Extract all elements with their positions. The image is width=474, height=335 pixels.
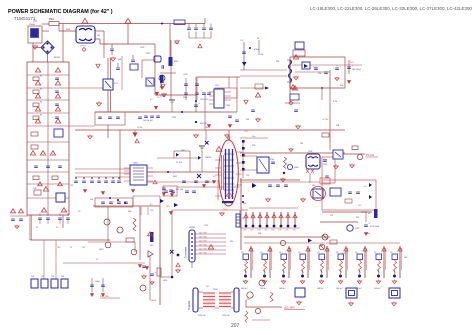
svg-text:POWER SCHEMATIC DIAGRAM (for 4: POWER SCHEMATIC DIAGRAM (for 42" ) xyxy=(8,9,113,15)
capacitor xyxy=(55,103,59,105)
resistor zigzag xyxy=(321,260,324,273)
wire xyxy=(240,69,287,71)
ground xyxy=(301,199,306,202)
ground arrow xyxy=(364,232,368,236)
tick marks above inlet xyxy=(33,20,37,22)
blue dot xyxy=(301,275,304,278)
svg-text:24V_INV: 24V_INV xyxy=(199,244,207,246)
ground xyxy=(15,226,19,229)
wire y65 xyxy=(292,64,362,66)
blue dot xyxy=(358,275,361,278)
wire xyxy=(245,270,247,276)
wire xyxy=(321,270,323,276)
ground xyxy=(110,58,115,61)
wire xyxy=(329,130,331,150)
warning triangle xyxy=(293,55,298,59)
svg-text:D96: D96 xyxy=(293,230,296,232)
diode xyxy=(273,212,275,225)
transistor xyxy=(243,254,249,260)
ground xyxy=(150,282,154,285)
wire xyxy=(264,270,266,276)
capacitor xyxy=(188,24,190,28)
left margin cluster xyxy=(11,209,16,213)
svg-text:D96: D96 xyxy=(272,230,275,232)
capacitor C929 xyxy=(205,180,209,182)
vertical rail 241 xyxy=(240,178,242,250)
resistor R913 bar xyxy=(169,57,173,66)
wire drops xyxy=(140,207,142,215)
wire xyxy=(215,307,219,309)
diode xyxy=(259,212,261,225)
wire xyxy=(142,59,154,61)
filter component FB901 xyxy=(174,20,185,25)
main rail 130 xyxy=(75,129,345,131)
main rail 112 xyxy=(95,111,237,113)
transistor Q962 xyxy=(357,154,362,159)
wire xyxy=(302,270,304,276)
svg-text:Q95: Q95 xyxy=(150,245,153,247)
power arrow xyxy=(382,247,386,251)
warning triangle pair ladder low xyxy=(38,182,43,186)
ground diamond top xyxy=(227,136,231,140)
section box to-inverter xyxy=(172,209,240,211)
ground xyxy=(176,270,181,273)
wire ladder to aux xyxy=(69,87,104,89)
capacitor C927 xyxy=(182,180,186,182)
power arrow big xyxy=(132,132,137,137)
wire xyxy=(285,102,300,104)
main transformer T901 circled xyxy=(219,140,239,206)
opto coupler PC902 xyxy=(333,150,343,159)
power arrow xyxy=(344,247,348,251)
wire vertical 122 xyxy=(121,56,123,90)
transistor Q965 xyxy=(280,240,285,245)
svg-text:R909: R909 xyxy=(66,29,70,31)
ground xyxy=(32,46,37,49)
transistor xyxy=(262,254,268,260)
warning triangle xyxy=(55,119,60,123)
transistor X mark xyxy=(197,174,201,178)
power arrow xyxy=(287,247,291,251)
svg-text:1N4148: 1N4148 xyxy=(150,300,156,302)
transformer T950 left former xyxy=(193,288,198,312)
ground xyxy=(338,281,342,284)
svg-text:D912: D912 xyxy=(181,150,185,152)
driver cell line xyxy=(288,246,290,278)
power arrow xyxy=(160,86,164,90)
svg-text:100K 4u7: 100K 4u7 xyxy=(260,288,267,290)
red box snubber low xyxy=(163,186,177,196)
wire vertical 205 xyxy=(204,95,206,130)
crystal component XT2 xyxy=(389,288,400,298)
svg-text:Q9: Q9 xyxy=(298,252,300,254)
capacitor xyxy=(101,284,105,286)
svg-text:Q96: Q96 xyxy=(246,299,250,301)
svg-text:+12V: +12V xyxy=(183,74,188,76)
svg-text:U904: U904 xyxy=(226,105,230,107)
junction xyxy=(167,171,169,173)
wire harness xyxy=(195,233,226,235)
resistor R903 xyxy=(130,64,138,69)
svg-text:R913: R913 xyxy=(174,61,178,63)
transistor cluster mid xyxy=(105,242,111,248)
capacitor C961 xyxy=(314,67,318,69)
capacitor C932 xyxy=(271,161,275,163)
capacitor xyxy=(90,284,94,286)
wire xyxy=(240,181,320,183)
red highlight box xyxy=(320,178,330,184)
diode D912 xyxy=(176,153,179,157)
diode D951 xyxy=(148,251,153,257)
capacitor row on rail xyxy=(144,115,148,117)
warning triangle row xyxy=(30,151,35,155)
svg-text:24V_INV: 24V_INV xyxy=(199,248,207,250)
ground xyxy=(296,126,301,129)
driver cell line xyxy=(345,246,347,278)
wire xyxy=(58,24,60,32)
wire y72 xyxy=(295,71,330,73)
power arrow xyxy=(249,247,253,251)
wire xyxy=(10,215,28,217)
wire top bus xyxy=(59,23,205,25)
warning triangle xyxy=(43,187,48,191)
wire xyxy=(107,207,109,242)
svg-text:C913: C913 xyxy=(146,53,150,55)
svg-text:0.1: 0.1 xyxy=(150,204,153,206)
wire xyxy=(134,242,136,252)
power node arrow xyxy=(96,64,100,68)
diode D975 xyxy=(369,195,372,199)
wire rung xyxy=(27,141,69,143)
wire xyxy=(128,43,155,45)
resistor xyxy=(33,77,39,81)
blue dot xyxy=(244,275,247,278)
resistor R976 zigzag vertical xyxy=(245,311,248,323)
warning triangle xyxy=(35,81,40,85)
wire riser xyxy=(169,24,171,61)
wire y151 branch xyxy=(174,150,190,152)
svg-text:104: 104 xyxy=(90,199,93,201)
transistor xyxy=(376,254,382,260)
capacitor C918 xyxy=(207,92,211,94)
ground xyxy=(392,303,397,306)
ground xyxy=(266,199,271,202)
capacitor C920 xyxy=(228,115,232,117)
red box C958 area xyxy=(322,157,335,183)
capacitor xyxy=(164,190,168,192)
MOSFET Q951 xyxy=(170,250,174,254)
warning triangle xyxy=(292,86,297,90)
blue box D944 xyxy=(290,94,299,100)
regulator IC902 xyxy=(302,62,310,69)
power arrow xyxy=(268,247,272,251)
svg-text:10V 470uF: 10V 470uF xyxy=(352,69,362,71)
capacitor C953 xyxy=(284,184,288,186)
wire rung xyxy=(27,99,69,101)
wire xyxy=(160,72,176,74)
warning triangle xyxy=(35,107,40,111)
warning triangle xyxy=(290,85,295,89)
ground xyxy=(392,281,396,284)
wire sec bottom xyxy=(240,169,257,171)
svg-text:Q9: Q9 xyxy=(260,252,262,254)
blue dot xyxy=(263,275,266,278)
svg-text:LF901: LF901 xyxy=(80,46,87,48)
wire xyxy=(95,30,104,32)
capacitor CE xyxy=(31,279,38,288)
capacitor C942 xyxy=(251,109,255,111)
svg-text:C93: C93 xyxy=(246,175,249,177)
capacitor xyxy=(66,217,70,219)
standby loop wire xyxy=(290,57,345,88)
connector bar xyxy=(374,209,378,218)
wire rung xyxy=(27,171,69,173)
ground dark T xyxy=(169,99,175,101)
diode D911 dot xyxy=(195,121,197,123)
capacitor xyxy=(46,217,50,219)
blue box D910 xyxy=(130,64,138,70)
resistor xyxy=(33,103,39,107)
capacitor xyxy=(38,217,42,219)
wire xyxy=(289,88,291,103)
power arrow xyxy=(169,211,173,215)
resistor zigzag xyxy=(340,260,343,273)
wire xyxy=(258,40,260,55)
capacitor CE xyxy=(51,279,58,288)
svg-text:D96: D96 xyxy=(279,230,282,232)
capacitor C915 xyxy=(116,67,120,69)
svg-text:R1: R1 xyxy=(40,89,42,91)
svg-text:TH1: TH1 xyxy=(33,188,36,190)
svg-text:D96: D96 xyxy=(265,230,268,232)
ground arrow xyxy=(101,293,105,297)
svg-text:D96: D96 xyxy=(312,185,315,187)
svg-text:R96: R96 xyxy=(258,233,261,235)
capacitor xyxy=(97,180,101,182)
vertical rail xyxy=(119,130,121,180)
capacitor CE xyxy=(61,279,68,288)
wire y153 secondary rail xyxy=(240,152,345,154)
diode xyxy=(294,212,296,225)
resistor R914 bar xyxy=(160,75,164,83)
transistor xyxy=(281,254,287,260)
svg-text:C905: C905 xyxy=(140,47,144,49)
transistor Q966 npn xyxy=(319,244,325,250)
capacitor C923 xyxy=(116,116,120,118)
power arrow xyxy=(398,247,402,251)
AC inlet connector CN901 xyxy=(28,26,42,43)
warning triangle xyxy=(208,245,213,249)
svg-text:C92: C92 xyxy=(205,127,208,129)
wire xyxy=(62,215,64,228)
svg-text:C958: C958 xyxy=(323,164,327,166)
svg-text:LC-19LE300, LC-22LE300, LC-26L: LC-19LE300, LC-22LE300, LC-26LE300, LC-3… xyxy=(310,6,472,11)
wire xyxy=(322,211,372,213)
svg-text:104: 104 xyxy=(97,35,100,37)
svg-text:C95: C95 xyxy=(31,276,34,278)
photocoupler PC903 xyxy=(146,78,154,86)
capacitor C914 xyxy=(161,65,163,69)
resistor R962 xyxy=(352,146,358,150)
component D970 xyxy=(295,288,305,297)
wire y158 xyxy=(157,157,200,159)
svg-text:F901: F901 xyxy=(49,19,55,21)
wire y242 xyxy=(88,241,135,243)
svg-text:C95: C95 xyxy=(51,276,54,278)
resistor xyxy=(33,116,39,120)
capacitor row xyxy=(34,165,38,167)
wire xyxy=(39,213,41,216)
IC U904 xyxy=(214,89,224,108)
warning triangle xyxy=(55,107,60,111)
resistor zigzag xyxy=(359,260,362,273)
resistor R945 vertical xyxy=(157,268,161,276)
wire xyxy=(228,130,230,140)
svg-text:100K 4u7: 100K 4u7 xyxy=(279,288,286,290)
capacitor C972 xyxy=(356,191,360,193)
IC U953 xyxy=(330,188,341,196)
wire xyxy=(30,239,110,241)
ground arrow xyxy=(155,92,159,96)
IC pins left xyxy=(124,167,130,169)
wire y187 xyxy=(177,186,240,188)
diode D974 xyxy=(369,183,372,187)
wire rung xyxy=(27,197,69,199)
pin dots low xyxy=(242,195,244,197)
IC pins right xyxy=(147,167,153,169)
svg-text:C917: C917 xyxy=(215,85,219,87)
capacitor xyxy=(117,180,121,182)
wire vertical pair primary xyxy=(107,58,109,112)
IC U952 xyxy=(313,189,323,198)
svg-text:D96: D96 xyxy=(244,230,247,232)
driver cell line xyxy=(250,246,252,278)
connector strip xyxy=(236,214,240,227)
svg-text:D911 BD: D911 BD xyxy=(200,123,208,125)
svg-text:C95: C95 xyxy=(150,210,153,212)
wire xyxy=(159,206,161,305)
wire ladder mid rail xyxy=(47,62,49,215)
driver cell line xyxy=(383,246,385,278)
resistor R970 zigzag xyxy=(270,292,273,302)
svg-text:R94: R94 xyxy=(128,211,131,213)
capacitor C917 xyxy=(202,92,206,94)
wire sec y182 caps xyxy=(162,187,166,189)
ground xyxy=(376,281,380,284)
relay RL901 xyxy=(54,129,63,137)
capacitor C963 xyxy=(323,159,327,161)
wire xyxy=(139,206,141,260)
capacitor xyxy=(74,180,78,182)
svg-text:Q952: Q952 xyxy=(99,249,103,251)
fuse F901 xyxy=(49,22,59,26)
svg-text:D96: D96 xyxy=(286,230,289,232)
power arrow xyxy=(306,247,310,251)
wire riser 171 xyxy=(170,40,172,100)
node diamond xyxy=(289,101,293,105)
warning triangle xyxy=(255,93,260,97)
svg-text:715G4171: 715G4171 xyxy=(14,16,36,21)
svg-text:CN951: CN951 xyxy=(189,227,196,229)
resistor R916 xyxy=(52,176,58,180)
ground xyxy=(300,281,304,284)
capacitor C922 xyxy=(108,116,112,118)
transistor xyxy=(319,254,325,260)
wire rung xyxy=(27,183,69,185)
warning triangle xyxy=(35,94,40,98)
driver cell line xyxy=(269,246,271,278)
ground xyxy=(194,135,199,138)
red highlight ellipse xyxy=(311,187,326,201)
diode D956 xyxy=(283,172,285,174)
blue dots xyxy=(109,197,111,199)
ground dark T xyxy=(361,211,367,213)
wire xyxy=(309,173,311,183)
power arrow xyxy=(153,180,157,184)
box below IC left part xyxy=(95,198,133,207)
svg-text:24V_INV: 24V_INV xyxy=(199,236,207,238)
svg-text:3.3V: 3.3V xyxy=(333,101,338,103)
diode xyxy=(245,212,247,225)
electrolytic C956 xyxy=(150,273,154,275)
wire xyxy=(340,270,342,276)
svg-text:BD901: BD901 xyxy=(54,57,61,59)
ground xyxy=(357,281,361,284)
svg-text:R96: R96 xyxy=(340,85,343,87)
junction xyxy=(161,23,163,25)
diode xyxy=(266,212,268,225)
wire xyxy=(241,209,248,211)
winding cross marks xyxy=(306,169,314,173)
MOSFET Q901 xyxy=(205,141,209,145)
warning triangle xyxy=(55,81,60,85)
capacitor xyxy=(58,217,62,219)
red box snubber xyxy=(255,84,263,89)
capacitor C921 xyxy=(98,116,102,118)
aux transformer T903 winding xyxy=(289,60,292,83)
transistor Q960 xyxy=(247,292,253,298)
winding hatch left xyxy=(203,292,215,308)
capacitor xyxy=(210,24,212,28)
wire xyxy=(246,300,282,307)
driver cell line xyxy=(364,246,366,278)
crystal X901 xyxy=(295,42,304,49)
wire rung xyxy=(27,74,69,76)
wire xyxy=(201,148,203,172)
svg-text:100K 4u7: 100K 4u7 xyxy=(374,288,381,290)
transistor xyxy=(338,254,344,260)
svg-text:100K 4u7: 100K 4u7 xyxy=(241,288,248,290)
wire xyxy=(160,276,170,278)
wire xyxy=(189,37,211,39)
resistor R971 xyxy=(345,199,352,203)
wire xyxy=(320,221,358,223)
transistor Q921 xyxy=(104,219,110,225)
capacitor C925 xyxy=(235,119,239,121)
wire xyxy=(47,54,49,62)
resistor R955 zigzag xyxy=(284,157,287,169)
wire vertical 244 xyxy=(243,42,245,70)
svg-text:GND: GND xyxy=(204,225,209,227)
wire rung xyxy=(27,87,69,89)
wire xyxy=(29,215,31,240)
photocoupler PC901 xyxy=(103,79,113,90)
ground xyxy=(297,302,302,305)
blue pin squares xyxy=(242,140,245,143)
wire horizontal 95 xyxy=(155,94,196,96)
PWM controller IC U901 xyxy=(257,157,269,173)
transistor Q973 xyxy=(322,234,328,240)
